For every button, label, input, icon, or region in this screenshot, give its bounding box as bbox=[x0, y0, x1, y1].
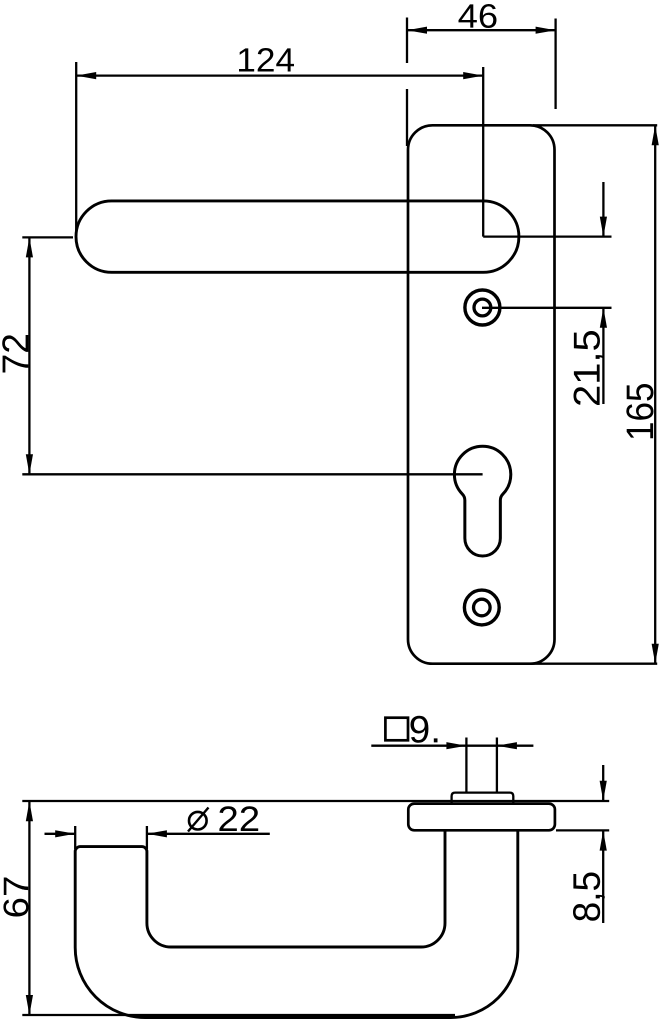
tick o22 left bbox=[74, 826, 76, 849]
lever handle (front view capsule) bbox=[76, 201, 519, 272]
dimension 165 line bbox=[654, 125, 656, 663]
dimension 124 line bbox=[76, 74, 483, 76]
arrow 124 right bbox=[463, 72, 483, 79]
arrow 165 down bbox=[652, 644, 659, 664]
backplate outline (front view) bbox=[408, 125, 555, 663]
arrow 46 left bbox=[407, 27, 427, 34]
door face reference line bbox=[22, 800, 609, 802]
tick o22 right bbox=[146, 826, 148, 849]
euro profile cylinder hole bbox=[454, 446, 510, 556]
backplate (side view) bbox=[408, 804, 555, 831]
label 72 (rotated) bbox=[2, 335, 28, 373]
extension line 67 bottom bbox=[22, 1014, 455, 1016]
arrow 72 bottom bbox=[26, 454, 33, 474]
dimension 46 line bbox=[407, 29, 556, 31]
arrow 67 down bbox=[26, 995, 33, 1015]
spindle boss bbox=[452, 793, 514, 804]
arrow 165 up bbox=[652, 125, 659, 145]
label 46 bbox=[459, 4, 497, 28]
extension line 165 bottom bbox=[533, 663, 657, 665]
lever handle (side view U profile) bbox=[75, 830, 518, 1018]
label 67 (rotated) bbox=[3, 878, 28, 917]
arrow o22 left-pointing bbox=[147, 830, 167, 837]
arrow 72 top bbox=[26, 237, 33, 257]
extension leader 72 bottom to cylinder centre bbox=[22, 473, 482, 475]
extension line 124 left bbox=[75, 62, 77, 236]
label 124 bbox=[239, 48, 294, 72]
extension line 124 right bbox=[482, 67, 484, 237]
extension line 72 top bbox=[22, 236, 73, 238]
arrow 21,5 down bbox=[600, 217, 607, 237]
dimension o22 left line bbox=[45, 833, 76, 835]
spindle right line bbox=[496, 738, 498, 793]
top fixing screw hole bbox=[465, 290, 500, 325]
leader top screw to right bbox=[482, 307, 612, 309]
arrow o22 right-pointing bbox=[55, 830, 75, 837]
dimension 21,5 upper arrow line bbox=[602, 182, 604, 237]
arrow 8,5 down bbox=[600, 781, 607, 801]
arrow 124 left bbox=[76, 72, 96, 79]
dimension 72 line bbox=[28, 237, 30, 474]
label 21,5 (rotated) bbox=[573, 331, 604, 405]
spindle left line bbox=[465, 738, 467, 793]
diameter symbol bbox=[189, 812, 207, 830]
dimension 8,5 lower arrow line bbox=[602, 831, 604, 923]
arrow 9 left-pointing bbox=[497, 742, 517, 749]
square symbol bbox=[385, 718, 408, 741]
dimension 8,5 upper arrow line bbox=[602, 765, 604, 801]
dimension o22 right line bbox=[147, 833, 270, 835]
label 22 bbox=[219, 806, 258, 831]
arrow 9 right-pointing bbox=[446, 742, 466, 749]
extension line 165 top bbox=[533, 124, 657, 126]
arrow 8,5 up bbox=[600, 831, 607, 851]
extension line 46 right bbox=[554, 19, 556, 110]
dimension square 9 line bbox=[371, 745, 533, 747]
extension line handle axis to right bbox=[483, 235, 611, 237]
arrow 21,5 up bbox=[600, 308, 607, 328]
extension line 8,5 bottom bbox=[556, 829, 609, 831]
extension line 46 left lower bbox=[406, 89, 408, 146]
dimension 67 line bbox=[28, 801, 30, 1015]
extension line 46 left upper bbox=[406, 18, 408, 64]
label 8,5 (rotated) bbox=[573, 873, 605, 921]
label 9. bbox=[411, 716, 438, 743]
dimension 21,5 lower arrow line bbox=[602, 308, 604, 404]
arrow 46 right bbox=[536, 27, 556, 34]
label 165 (rotated) bbox=[626, 384, 653, 438]
bottom fixing screw hole bbox=[464, 590, 499, 625]
arrow 67 up bbox=[26, 801, 33, 821]
